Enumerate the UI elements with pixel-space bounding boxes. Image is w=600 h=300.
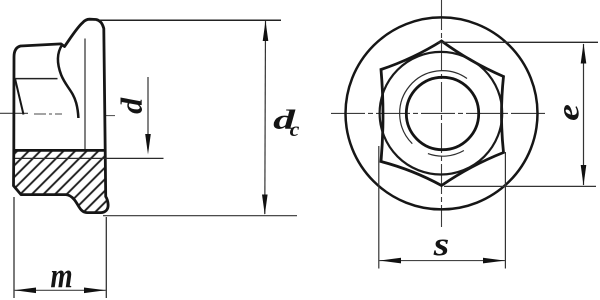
side view: hatched section area (flange nut cut) [14,151,109,213]
dimension m: right extension line [105,217,107,298]
dimension d: leader line [147,77,149,149]
top view: thread major arc [400,71,467,144]
side view: flange face line [84,39,86,151]
side view: facet boundary line [15,78,58,80]
dimension e: top extension line [438,41,598,43]
dimension s: right extension line [504,152,506,269]
top view: hexagon [381,41,504,186]
dimension m: dimension line [14,289,106,291]
side view: axis centerline left segment [0,112,28,114]
dimension s: label [434,240,449,256]
side view: flange transition curve [58,45,78,118]
dimension d_c: bottom arrowhead [262,195,268,215]
dimension d_c: dimension line [264,21,267,214]
dimension d_c: top arrowhead [263,21,269,41]
dimension e: dimension line [583,44,585,185]
top view: flange outer circle [346,17,538,209]
dimension d_c: bottom extension line [103,215,297,217]
top view: thread major arc bottom segment [428,151,464,157]
dimension e: top arrowhead [581,43,587,63]
dimension d_c: label [274,110,296,130]
dimension e: label [564,105,579,120]
dimension s: left extension line [378,146,380,269]
top view: horizontal centerline [331,112,546,114]
dimension d: arrowhead [145,134,151,155]
side view: thread major line + d pointer tick [15,157,164,159]
side view: nut outer silhouette [14,19,109,212]
side view: axis centerline inner segment [34,113,62,115]
dimension m: right arrowhead [84,288,106,294]
dimension e: bottom extension line [444,185,596,187]
top view: chamfer circle [380,52,503,175]
dimension d: label [121,98,143,114]
top view: thread minor circle (bore) [406,77,478,149]
dimension m: label [51,271,71,288]
dimension m: left extension line [13,197,15,298]
top view: vertical centerline [441,0,443,227]
dimension s: dimension line [379,260,505,262]
side view: chamfer facet diagonal [15,79,24,115]
side view: thread bore line (minor dia, thick) [14,149,106,152]
dimension s: left arrowhead [380,258,402,264]
dimension m: left arrowhead [15,288,36,294]
dimension s: right arrowhead [483,258,505,264]
dimension d_c: top extension line [100,19,281,21]
side view: axis centerline right tick [104,115,115,117]
dimension e: bottom arrowhead [581,165,587,186]
